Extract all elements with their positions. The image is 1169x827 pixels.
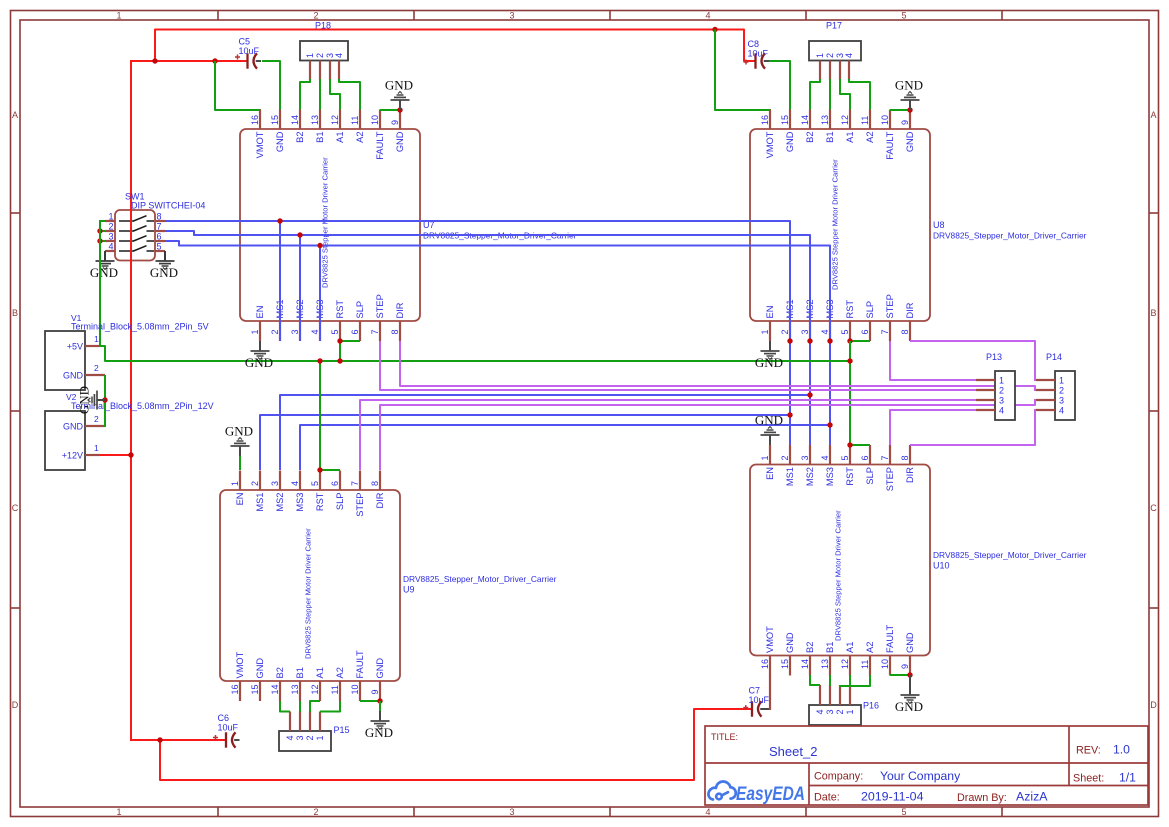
svg-text:Sheet:: Sheet: — [1073, 773, 1104, 785]
svg-text:MS1: MS1 — [785, 467, 795, 486]
wire U7 MS3 drop — [319, 246, 321, 342]
svg-text:1: 1 — [116, 807, 121, 817]
svg-text:15: 15 — [780, 659, 790, 669]
node junction +12V at C8/U8 — [712, 27, 717, 32]
wire MS2 bus from SW1.7 — [165, 231, 810, 445]
svg-text:8: 8 — [900, 455, 910, 460]
svg-text:P17: P17 — [826, 21, 842, 31]
svg-text:6: 6 — [860, 329, 870, 334]
IC U10 DRV8825_Stepper_Motor_Driver_Carrier — [750, 465, 930, 656]
wire U9 STEP to P13.3 — [360, 400, 976, 470]
wire C8 to U8 GND15 — [766, 61, 790, 110]
svg-text:5: 5 — [157, 242, 162, 252]
svg-text:REV:: REV: — [1076, 745, 1101, 757]
svg-text:12: 12 — [310, 684, 320, 694]
wire U8-U10 RST drop — [849, 341, 851, 445]
svg-text:11: 11 — [860, 116, 870, 125]
svg-text:B: B — [12, 308, 18, 318]
svg-text:STEP: STEP — [885, 294, 895, 318]
svg-text:7: 7 — [370, 329, 380, 334]
svg-text:GND: GND — [245, 355, 273, 370]
node junction U9 GND9 — [377, 698, 382, 703]
svg-text:5: 5 — [310, 481, 320, 486]
svg-text:B2: B2 — [805, 132, 815, 143]
ground SW1 right — [150, 251, 178, 280]
svg-text:DRV8825 Stepper Motor Driver C: DRV8825 Stepper Motor Driver Carrier — [304, 528, 313, 659]
svg-text:DIR: DIR — [395, 302, 405, 318]
svg-text:VMOT: VMOT — [765, 131, 775, 158]
svg-text:Drawn By:: Drawn By: — [957, 792, 1007, 804]
svg-text:RST: RST — [845, 467, 855, 486]
IC U8 DRV8825_Stepper_Motor_Driver_Carrier — [750, 129, 930, 321]
svg-text:11: 11 — [330, 685, 340, 694]
svg-text:MS2: MS2 — [275, 493, 285, 512]
svg-text:2: 2 — [780, 329, 790, 334]
svg-text:1: 1 — [108, 212, 113, 222]
wire SW1 pin4 to ground — [104, 251, 106, 256]
svg-text:15: 15 — [250, 684, 260, 694]
ground U9 EN — [225, 424, 253, 471]
svg-text:4: 4 — [290, 481, 300, 486]
svg-text:Terminal_Block_5.08mm_2Pin_5V: Terminal_Block_5.08mm_2Pin_5V — [71, 322, 209, 332]
svg-text:B1: B1 — [825, 642, 835, 653]
svg-text:GND: GND — [255, 658, 265, 679]
wire U10 A1 to P16.2 — [840, 675, 850, 686]
node junction SW1 pin2 — [97, 228, 102, 233]
svg-text:GND: GND — [275, 131, 285, 152]
wire P17.4 to U8 A2 — [849, 79, 870, 110]
svg-text:GND: GND — [905, 632, 915, 653]
svg-text:4: 4 — [705, 807, 710, 817]
svg-text:MS3: MS3 — [295, 493, 305, 512]
svg-text:EN: EN — [765, 467, 775, 480]
svg-text:B2: B2 — [295, 132, 305, 143]
svg-text:DRV8825 Stepper Motor Driver C: DRV8825 Stepper Motor Driver Carrier — [834, 510, 843, 641]
node junction +12V at C5 — [212, 58, 217, 63]
svg-text:Date:: Date: — [814, 792, 840, 804]
wire P18.2 to U7 B1 — [319, 79, 321, 110]
svg-text:2: 2 — [315, 53, 325, 58]
node junction U8 GND9 — [907, 107, 912, 112]
svg-text:1: 1 — [1059, 376, 1064, 386]
svg-text:STEP: STEP — [885, 467, 895, 491]
wire U10 B2 to P16.4 — [810, 675, 820, 685]
svg-text:SLP: SLP — [355, 301, 365, 319]
svg-text:3: 3 — [800, 329, 810, 334]
svg-text:C: C — [12, 503, 19, 513]
IC U7 DRV8825_Stepper_Motor_Driver_Carrier — [240, 129, 420, 321]
wire C5 to U7 GND15 — [262, 61, 280, 110]
svg-text:7: 7 — [880, 329, 890, 334]
capacitor C6 — [213, 732, 240, 747]
svg-text:DRV8825 Stepper Motor Driver C: DRV8825 Stepper Motor Driver Carrier — [321, 157, 330, 288]
wire U9 MS2 link — [280, 395, 810, 470]
svg-text:1: 1 — [315, 735, 325, 740]
svg-text:12: 12 — [840, 659, 850, 669]
IC U9 DRV8825_Stepper_Motor_Driver_Carrier — [220, 490, 400, 681]
svg-text:5: 5 — [840, 455, 850, 460]
svg-text:FAULT: FAULT — [885, 624, 895, 653]
svg-text:1: 1 — [116, 11, 121, 21]
svg-text:GND: GND — [385, 78, 413, 93]
svg-text:STEP: STEP — [375, 294, 385, 318]
node junction bus at U9 — [317, 358, 322, 363]
svg-text:7: 7 — [880, 455, 890, 460]
svg-text:1: 1 — [94, 443, 99, 453]
wire P17.1 to U8 B2 — [810, 79, 820, 110]
svg-text:1: 1 — [305, 53, 315, 58]
wire U8 DIR to P14.1 — [910, 341, 1035, 381]
ground SW1 left — [90, 251, 118, 280]
svg-text:C7: C7 — [749, 686, 761, 696]
svg-text:13: 13 — [820, 115, 830, 125]
svg-text:15: 15 — [780, 115, 790, 125]
wire +12V through SW1 — [130, 205, 132, 265]
svg-text:B2: B2 — [275, 667, 285, 678]
wire +12V to V2 pin1 — [100, 454, 132, 456]
svg-text:11: 11 — [860, 660, 870, 669]
svg-text:P13: P13 — [986, 352, 1002, 362]
svg-text:3: 3 — [509, 807, 514, 817]
svg-text:1: 1 — [760, 329, 770, 334]
node junction MS3 mid — [827, 422, 832, 427]
wire U7 STEP to P13.2 — [380, 341, 976, 390]
svg-text:DIR: DIR — [905, 467, 915, 483]
svg-text:8: 8 — [370, 481, 380, 486]
svg-text:2: 2 — [1059, 386, 1064, 396]
svg-text:2: 2 — [825, 53, 835, 58]
svg-text:B1: B1 — [295, 667, 305, 678]
svg-text:3: 3 — [108, 232, 113, 242]
svg-text:DIR: DIR — [375, 492, 385, 508]
svg-text:GND: GND — [77, 386, 92, 414]
svg-text:2: 2 — [780, 455, 790, 460]
svg-text:MS3: MS3 — [825, 467, 835, 486]
svg-text:SLP: SLP — [335, 493, 345, 511]
node junction U9 RST — [317, 467, 322, 472]
svg-text:4: 4 — [1059, 406, 1064, 416]
svg-text:B1: B1 — [825, 132, 835, 143]
ground V1/V2 — [77, 386, 106, 414]
svg-text:4: 4 — [999, 406, 1004, 416]
svg-text:GND: GND — [63, 371, 84, 381]
wire U10 DIR to P14.4 — [910, 409, 1035, 445]
connector P17 — [809, 41, 861, 61]
svg-text:9: 9 — [370, 689, 380, 694]
svg-text:3: 3 — [509, 11, 514, 21]
connector P14 — [1055, 371, 1075, 420]
svg-text:P16: P16 — [863, 701, 879, 711]
svg-text:2: 2 — [999, 386, 1004, 396]
wire P18.4 to U7 A2 — [339, 79, 360, 110]
svg-text:Company:: Company: — [814, 771, 863, 783]
svg-text:2: 2 — [250, 481, 260, 486]
node junction MS1 mid — [787, 412, 792, 417]
svg-text:16: 16 — [760, 659, 770, 669]
logo EasyEDA — [708, 781, 735, 799]
wire U9 B1 to P15.3 — [299, 701, 301, 712]
svg-text:P15: P15 — [334, 725, 350, 735]
wire +12V bottom bus — [160, 709, 751, 780]
node junction U7 RST — [337, 338, 342, 343]
svg-text:3: 3 — [999, 396, 1004, 406]
svg-text:9: 9 — [900, 120, 910, 125]
wire U7 RST/SLP tie — [340, 341, 360, 361]
svg-text:10uF: 10uF — [218, 723, 239, 733]
svg-text:DRV8825_Stepper_Motor_Driver_C: DRV8825_Stepper_Motor_Driver_Carrier — [933, 550, 1087, 560]
svg-text:13: 13 — [290, 684, 300, 694]
svg-text:6: 6 — [330, 481, 340, 486]
svg-text:14: 14 — [270, 684, 280, 694]
svg-text:14: 14 — [290, 115, 300, 125]
svg-text:EasyEDA: EasyEDA — [736, 784, 805, 805]
svg-text:3: 3 — [800, 455, 810, 460]
svg-text:5: 5 — [901, 11, 906, 21]
svg-text:3: 3 — [825, 709, 835, 714]
svg-text:13: 13 — [310, 115, 320, 125]
wire P17.2 to U8 B1 — [829, 79, 831, 110]
svg-text:RST: RST — [335, 300, 345, 319]
svg-text:DIR: DIR — [905, 302, 915, 318]
svg-text:B1: B1 — [315, 132, 325, 143]
svg-text:2: 2 — [835, 709, 845, 714]
wire U9 DIR to P14.3 — [380, 399, 1035, 470]
svg-text:10: 10 — [880, 115, 890, 125]
wire U9 B2 to P15.4 — [280, 701, 290, 712]
svg-text:DRV8825_Stepper_Motor_Driver_C: DRV8825_Stepper_Motor_Driver_Carrier — [933, 231, 1087, 241]
wire MS1 bus from SW1.8 — [165, 221, 790, 445]
svg-text:6: 6 — [350, 329, 360, 334]
wire +5V from SW1 to V1 — [99, 220, 101, 346]
wire P18.1 to U7 B2 — [300, 79, 310, 110]
svg-text:6: 6 — [860, 455, 870, 460]
wire V1/V2 GND tie — [104, 375, 106, 427]
svg-text:AzizA: AzizA — [1016, 790, 1048, 804]
node junction MS3 at U7 — [317, 243, 322, 248]
node junction U10 RST — [847, 442, 852, 447]
svg-text:B2: B2 — [805, 642, 815, 653]
wire U8 STEP to P13.1 — [890, 341, 976, 380]
wire P17.3 to U8 A1 — [840, 79, 850, 110]
node junction U10 GND9 — [907, 672, 912, 677]
wire U9 RST drop — [319, 361, 321, 470]
svg-text:10uF: 10uF — [748, 49, 769, 59]
svg-text:C5: C5 — [239, 37, 251, 47]
svg-text:10: 10 — [370, 115, 380, 125]
svg-text:SLP: SLP — [865, 467, 875, 485]
svg-text:2: 2 — [313, 11, 318, 21]
svg-text:GND: GND — [90, 265, 118, 280]
node junction MS2 mid — [807, 392, 812, 397]
svg-text:10: 10 — [350, 684, 360, 694]
svg-text:GND: GND — [365, 725, 393, 740]
svg-text:14: 14 — [800, 115, 810, 125]
svg-text:EN: EN — [255, 306, 265, 319]
wire U10 A2 to P16.1 — [850, 675, 870, 686]
ground U7 EN — [245, 341, 273, 370]
title block — [705, 726, 1148, 805]
svg-text:EN: EN — [235, 493, 245, 506]
switch SW1 DIP SWITCHEI-04 — [115, 210, 155, 261]
svg-text:GND: GND — [755, 413, 783, 428]
wire SW1 pin5 to ground — [164, 251, 166, 256]
svg-text:16: 16 — [250, 115, 260, 125]
svg-text:10uF: 10uF — [239, 46, 260, 56]
svg-text:MS2: MS2 — [805, 467, 815, 486]
wire U7 MS2 drop — [299, 235, 301, 341]
wire MS3 bus from SW1.6 — [165, 241, 830, 445]
svg-text:FAULT: FAULT — [375, 131, 385, 160]
svg-text:5: 5 — [330, 329, 340, 334]
svg-text:MS1: MS1 — [255, 493, 265, 512]
wire U10 STEP to P13.4 — [890, 410, 976, 445]
svg-text:GND: GND — [785, 632, 795, 653]
svg-text:6: 6 — [157, 232, 162, 242]
svg-text:3: 3 — [270, 481, 280, 486]
wire U9 MS1 link — [260, 415, 790, 470]
svg-text:DIP SWITCHEI-04: DIP SWITCHEI-04 — [131, 201, 205, 211]
node junction +12V at C6 — [157, 737, 162, 742]
connector P18 — [300, 41, 348, 61]
ground U8 pin9 — [895, 78, 923, 111]
svg-text:9: 9 — [390, 120, 400, 125]
node junction MS1 at U7 — [277, 218, 282, 223]
wire C7 to U10 VMOT — [769, 675, 771, 710]
node junction MS3 at U8 — [827, 338, 832, 343]
node junction +12V at top-left — [152, 58, 157, 63]
node junction MS2 at U8 — [807, 338, 812, 343]
capacitor C5 — [235, 53, 261, 68]
svg-text:3: 3 — [295, 735, 305, 740]
svg-text:2: 2 — [108, 222, 113, 232]
wire VMOT U7 from C5 junction — [215, 61, 261, 110]
node junction +12V at V2 — [128, 452, 133, 457]
wire U9 A1 to P15.2 — [310, 701, 320, 712]
svg-text:5: 5 — [840, 329, 850, 334]
svg-text:4: 4 — [108, 242, 113, 252]
wire +12V left vertical — [130, 60, 132, 741]
svg-text:U9: U9 — [403, 585, 415, 595]
svg-text:10: 10 — [880, 659, 890, 669]
connector P13 — [995, 371, 1015, 420]
wire SW1 left common — [99, 220, 101, 252]
svg-text:GND: GND — [785, 131, 795, 152]
svg-text:VMOT: VMOT — [765, 626, 775, 653]
svg-text:GND: GND — [895, 78, 923, 93]
ground U8 EN — [755, 341, 783, 370]
svg-text:2: 2 — [270, 329, 280, 334]
svg-text:1.0: 1.0 — [1113, 743, 1130, 757]
svg-text:1: 1 — [230, 481, 240, 486]
terminal block V1 — [45, 331, 85, 390]
svg-text:RST: RST — [315, 492, 325, 511]
wire +12V top bus — [155, 30, 755, 62]
svg-text:A2: A2 — [355, 132, 365, 143]
svg-text:13: 13 — [820, 659, 830, 669]
svg-text:EN: EN — [765, 306, 775, 319]
svg-text:2019-11-04: 2019-11-04 — [861, 790, 924, 804]
svg-text:DRV8825 Stepper Motor Driver C: DRV8825 Stepper Motor Driver Carrier — [831, 159, 840, 290]
svg-text:GND: GND — [895, 699, 923, 714]
svg-text:16: 16 — [760, 115, 770, 125]
wire U10 RST/SLP tie — [850, 444, 870, 446]
svg-text:10uF: 10uF — [749, 695, 770, 705]
svg-text:TITLE:: TITLE: — [711, 732, 738, 742]
svg-text:7: 7 — [157, 222, 162, 232]
svg-text:P14: P14 — [1046, 352, 1062, 362]
wire U9 RST/SLP tie — [320, 469, 340, 471]
svg-text:GND: GND — [755, 355, 783, 370]
node junction V-GND — [102, 397, 107, 402]
svg-text:8: 8 — [157, 212, 162, 222]
svg-text:11: 11 — [350, 116, 360, 125]
svg-text:1: 1 — [250, 329, 260, 334]
node junction MS2 at U7 — [297, 232, 302, 237]
svg-text:Sheet_2: Sheet_2 — [769, 744, 817, 759]
connector P15 — [279, 731, 331, 751]
wire U8 RST/SLP tie — [850, 340, 870, 342]
svg-text:8: 8 — [900, 329, 910, 334]
ground U9 pin9 — [365, 701, 393, 740]
svg-text:GND: GND — [375, 658, 385, 679]
wire U9 MS3 link — [300, 425, 830, 470]
svg-text:STEP: STEP — [355, 493, 365, 517]
svg-text:GND: GND — [63, 422, 84, 432]
node junction SW1 pin3 — [97, 238, 102, 243]
svg-text:+12V: +12V — [62, 451, 83, 461]
wire VMOT U8 from top bus — [715, 30, 771, 111]
svg-text:4: 4 — [334, 53, 344, 58]
svg-text:GND: GND — [395, 131, 405, 152]
svg-text:2: 2 — [313, 807, 318, 817]
connector P16 — [809, 705, 861, 725]
svg-text:A1: A1 — [335, 132, 345, 143]
svg-text:SLP: SLP — [865, 301, 875, 319]
svg-text:14: 14 — [800, 659, 810, 669]
svg-text:D: D — [1150, 700, 1157, 710]
svg-text:4: 4 — [820, 455, 830, 460]
svg-text:B: B — [1150, 308, 1156, 318]
wire U9 FAULT/GND9 tie — [360, 700, 380, 702]
svg-text:4: 4 — [705, 11, 710, 21]
svg-text:C6: C6 — [218, 713, 230, 723]
svg-text:DRV8825_Stepper_Motor_Driver_C: DRV8825_Stepper_Motor_Driver_Carrier — [403, 574, 557, 584]
svg-text:Your Company: Your Company — [880, 769, 961, 783]
svg-text:VMOT: VMOT — [235, 651, 245, 678]
terminal block V2 — [45, 411, 85, 470]
svg-text:1: 1 — [845, 709, 855, 714]
svg-text:9: 9 — [900, 664, 910, 669]
capacitor C8 — [744, 53, 770, 68]
wire +12V horizontal to C5 — [131, 60, 247, 62]
wire U10 FAULT/GND9 tie — [890, 674, 910, 676]
svg-text:D: D — [12, 700, 19, 710]
svg-text:4: 4 — [844, 53, 854, 58]
svg-text:4: 4 — [815, 709, 825, 714]
ground U7 pin9 — [385, 78, 413, 111]
svg-text:A: A — [1150, 110, 1156, 120]
svg-text:C: C — [1150, 503, 1157, 513]
ground U10 pin9 — [895, 675, 923, 714]
svg-text:C8: C8 — [748, 39, 760, 49]
svg-text:GND: GND — [150, 265, 178, 280]
svg-text:1/1: 1/1 — [1119, 771, 1136, 785]
svg-text:4: 4 — [820, 329, 830, 334]
svg-text:1: 1 — [815, 53, 825, 58]
svg-text:4: 4 — [310, 329, 320, 334]
svg-text:2: 2 — [305, 735, 315, 740]
svg-text:GND: GND — [905, 131, 915, 152]
